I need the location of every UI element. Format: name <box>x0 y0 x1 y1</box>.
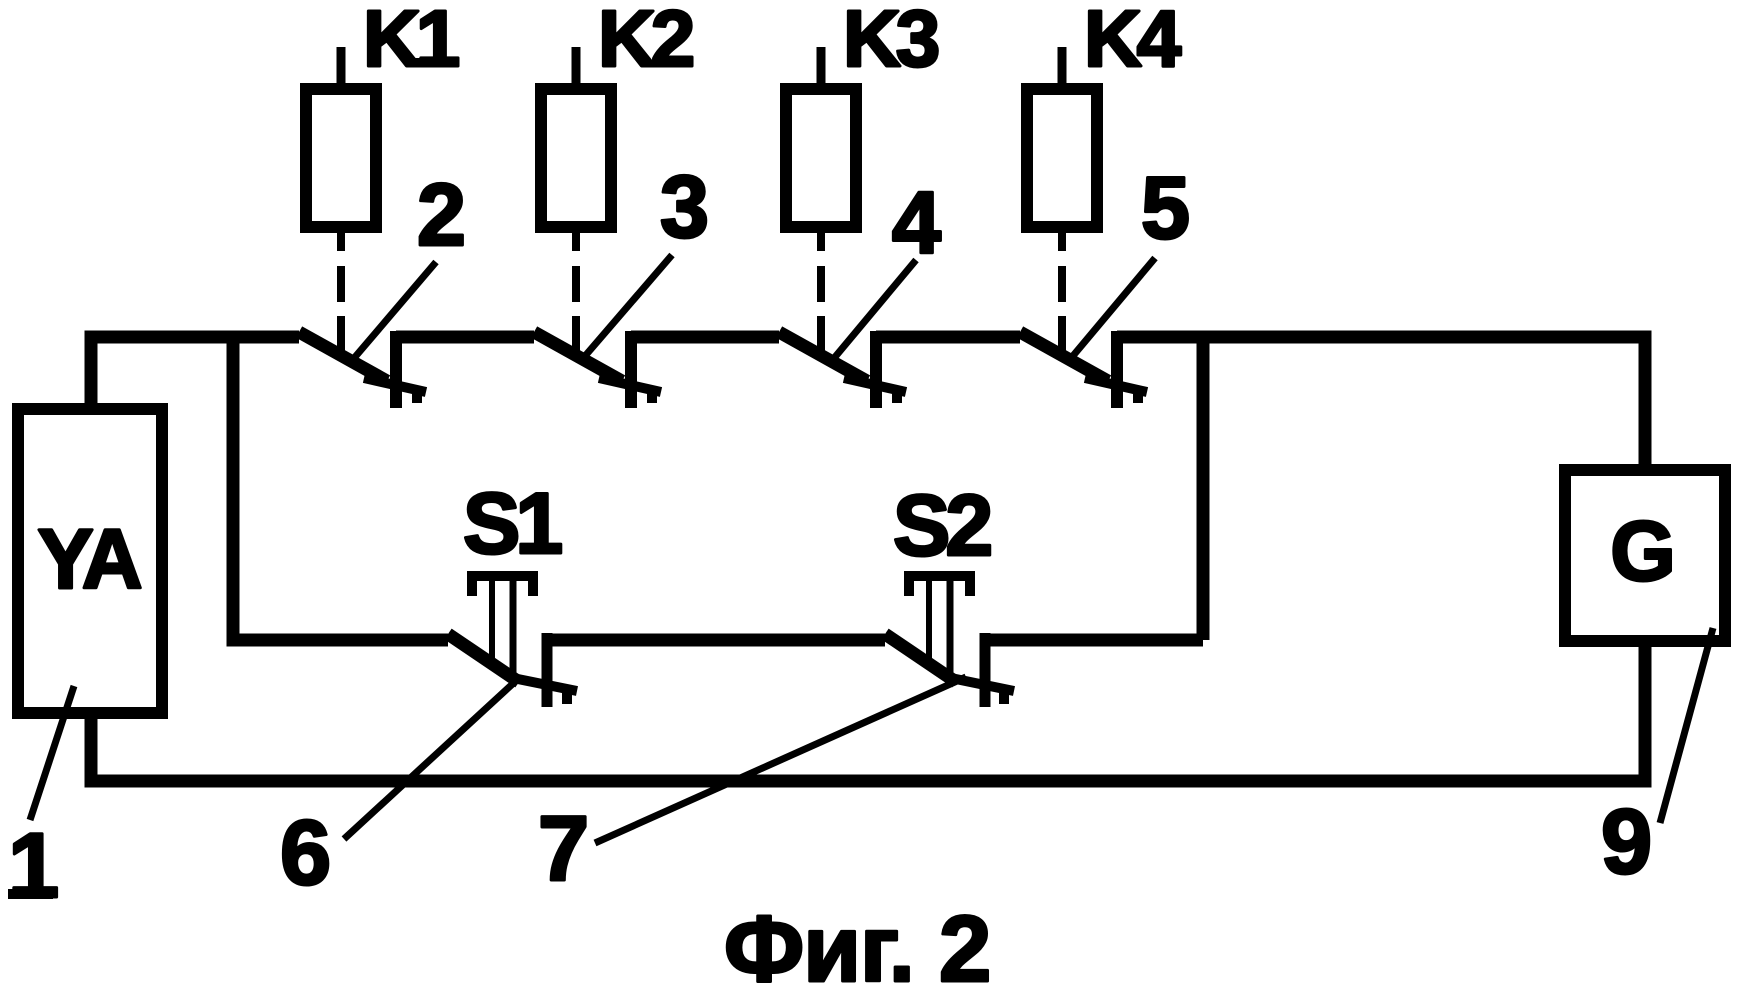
svg-text:Фиг. 2: Фиг. 2 <box>724 896 990 992</box>
svg-text:S1: S1 <box>463 476 561 572</box>
svg-text:1: 1 <box>8 815 59 917</box>
svg-text:5: 5 <box>1141 158 1190 257</box>
svg-text:K4: K4 <box>1084 0 1182 83</box>
svg-text:3: 3 <box>660 157 709 256</box>
svg-text:YA: YA <box>38 512 141 606</box>
svg-text:2: 2 <box>417 165 466 264</box>
svg-text:6: 6 <box>280 802 331 904</box>
svg-text:K2: K2 <box>598 0 693 83</box>
svg-text:G: G <box>1610 504 1675 598</box>
svg-text:4: 4 <box>892 173 941 272</box>
svg-text:9: 9 <box>1601 791 1652 893</box>
svg-text:K3: K3 <box>843 0 938 83</box>
svg-text:K1: K1 <box>363 0 459 83</box>
svg-text:S2: S2 <box>893 478 990 574</box>
svg-text:7: 7 <box>538 798 589 900</box>
